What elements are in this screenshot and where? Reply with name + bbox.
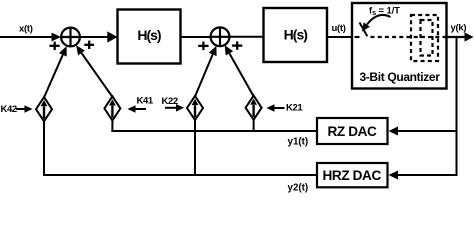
wire S2 to H(s) U2 (230, 36, 264, 38)
svg-text:RZ DAC: RZ DAC (328, 124, 378, 139)
controlled source K41 (104, 96, 120, 120)
arrowhead K22 into S2 (209, 46, 217, 56)
controlled source K42 (36, 97, 52, 121)
plus sign left of S2 (198, 42, 208, 50)
wire K21 to S2 diagonal (229, 53, 253, 96)
wire S1 to H(s) (80, 36, 109, 38)
block RZ DAC (317, 118, 388, 144)
label K41 with arrow (128, 96, 154, 113)
plus sign left of S1 (50, 42, 60, 50)
svg-text:K21: K21 (286, 103, 303, 114)
svg-text:x(t): x(t) (19, 23, 33, 34)
wire H(s) U1 to S2 (181, 36, 212, 38)
svg-text:y(k): y(k) (451, 22, 467, 33)
wire K22 drop to y2 line (194, 120, 196, 176)
arrowhead output y(k) (465, 32, 474, 41)
arrowhead into RZ DAC (389, 127, 399, 136)
plus sign right of S2 (232, 41, 242, 49)
arrowhead into HRZ DAC (389, 171, 399, 180)
wire H(s) U2 to quantizer, node u(t) (327, 36, 352, 38)
label K22 with arrow (162, 96, 185, 112)
wire K21 drop to y1 line (253, 119, 255, 132)
wire input x(t) (0, 36, 53, 38)
controlled source K21 (246, 96, 262, 120)
wire feedback vertical from y(k) (456, 36, 458, 176)
svg-text:3-Bit Quantizer: 3-Bit Quantizer (359, 70, 440, 84)
arrowhead into summing junction S1 (52, 33, 62, 42)
summing junction S1 (61, 28, 80, 47)
svg-text:u(t): u(t) (332, 23, 346, 34)
block H(s) U1 (118, 10, 181, 64)
wire output y(k) (447, 36, 466, 38)
arrowhead K41 into S1 (76, 45, 85, 55)
block 3-Bit Quantizer box (352, 3, 447, 89)
summing junction S2 (211, 27, 230, 46)
arrowhead K42 into S1 (59, 46, 67, 56)
svg-text:y2(t): y2(t) (288, 183, 309, 194)
wire K41 to S1 diagonal (82, 53, 113, 97)
block HRZ DAC (317, 163, 388, 187)
controlled source K22 (187, 96, 203, 120)
wire K22 to S2 diagonal (195, 54, 213, 96)
svg-text:HRZ DAC: HRZ DAC (323, 168, 382, 183)
svg-text:H(s): H(s) (284, 26, 308, 42)
wire y2(t) from HRZ DAC to K42 (43, 174, 317, 176)
wire feedback into HRZ DAC (397, 174, 457, 176)
dashed wire sampler to quantizer symbol (371, 36, 447, 38)
sampler switch input dash (355, 36, 360, 38)
block H(s) U2 (264, 8, 328, 62)
label K21 with arrow (267, 103, 304, 114)
svg-text:K22: K22 (162, 96, 178, 107)
label K42 with arrow (1, 104, 33, 115)
svg-text:y1(t): y1(t) (288, 137, 309, 148)
sampler actuation arc arrow (362, 15, 391, 32)
svg-text:K41: K41 (137, 96, 154, 107)
quantizer symbol outer dashed box (411, 15, 438, 61)
wire feedback into RZ DAC (397, 130, 457, 132)
wire y1(t) from RZ DAC to K41 (111, 130, 317, 132)
arrowhead K21 into S2 (225, 45, 233, 55)
svg-text:K42: K42 (1, 104, 17, 115)
wire K41 drop to y1 line (111, 120, 113, 132)
plus sign right of S1 (84, 41, 94, 49)
arrowhead into H(s) block U1 (107, 31, 117, 42)
svg-text:H(s): H(s) (137, 27, 161, 43)
quantizer symbol inner dashed box (421, 20, 433, 56)
wire K42 drop to y2 line (43, 121, 45, 176)
sampler switch arm (360, 23, 368, 37)
wire K42 to S1 diagonal (44, 55, 63, 98)
